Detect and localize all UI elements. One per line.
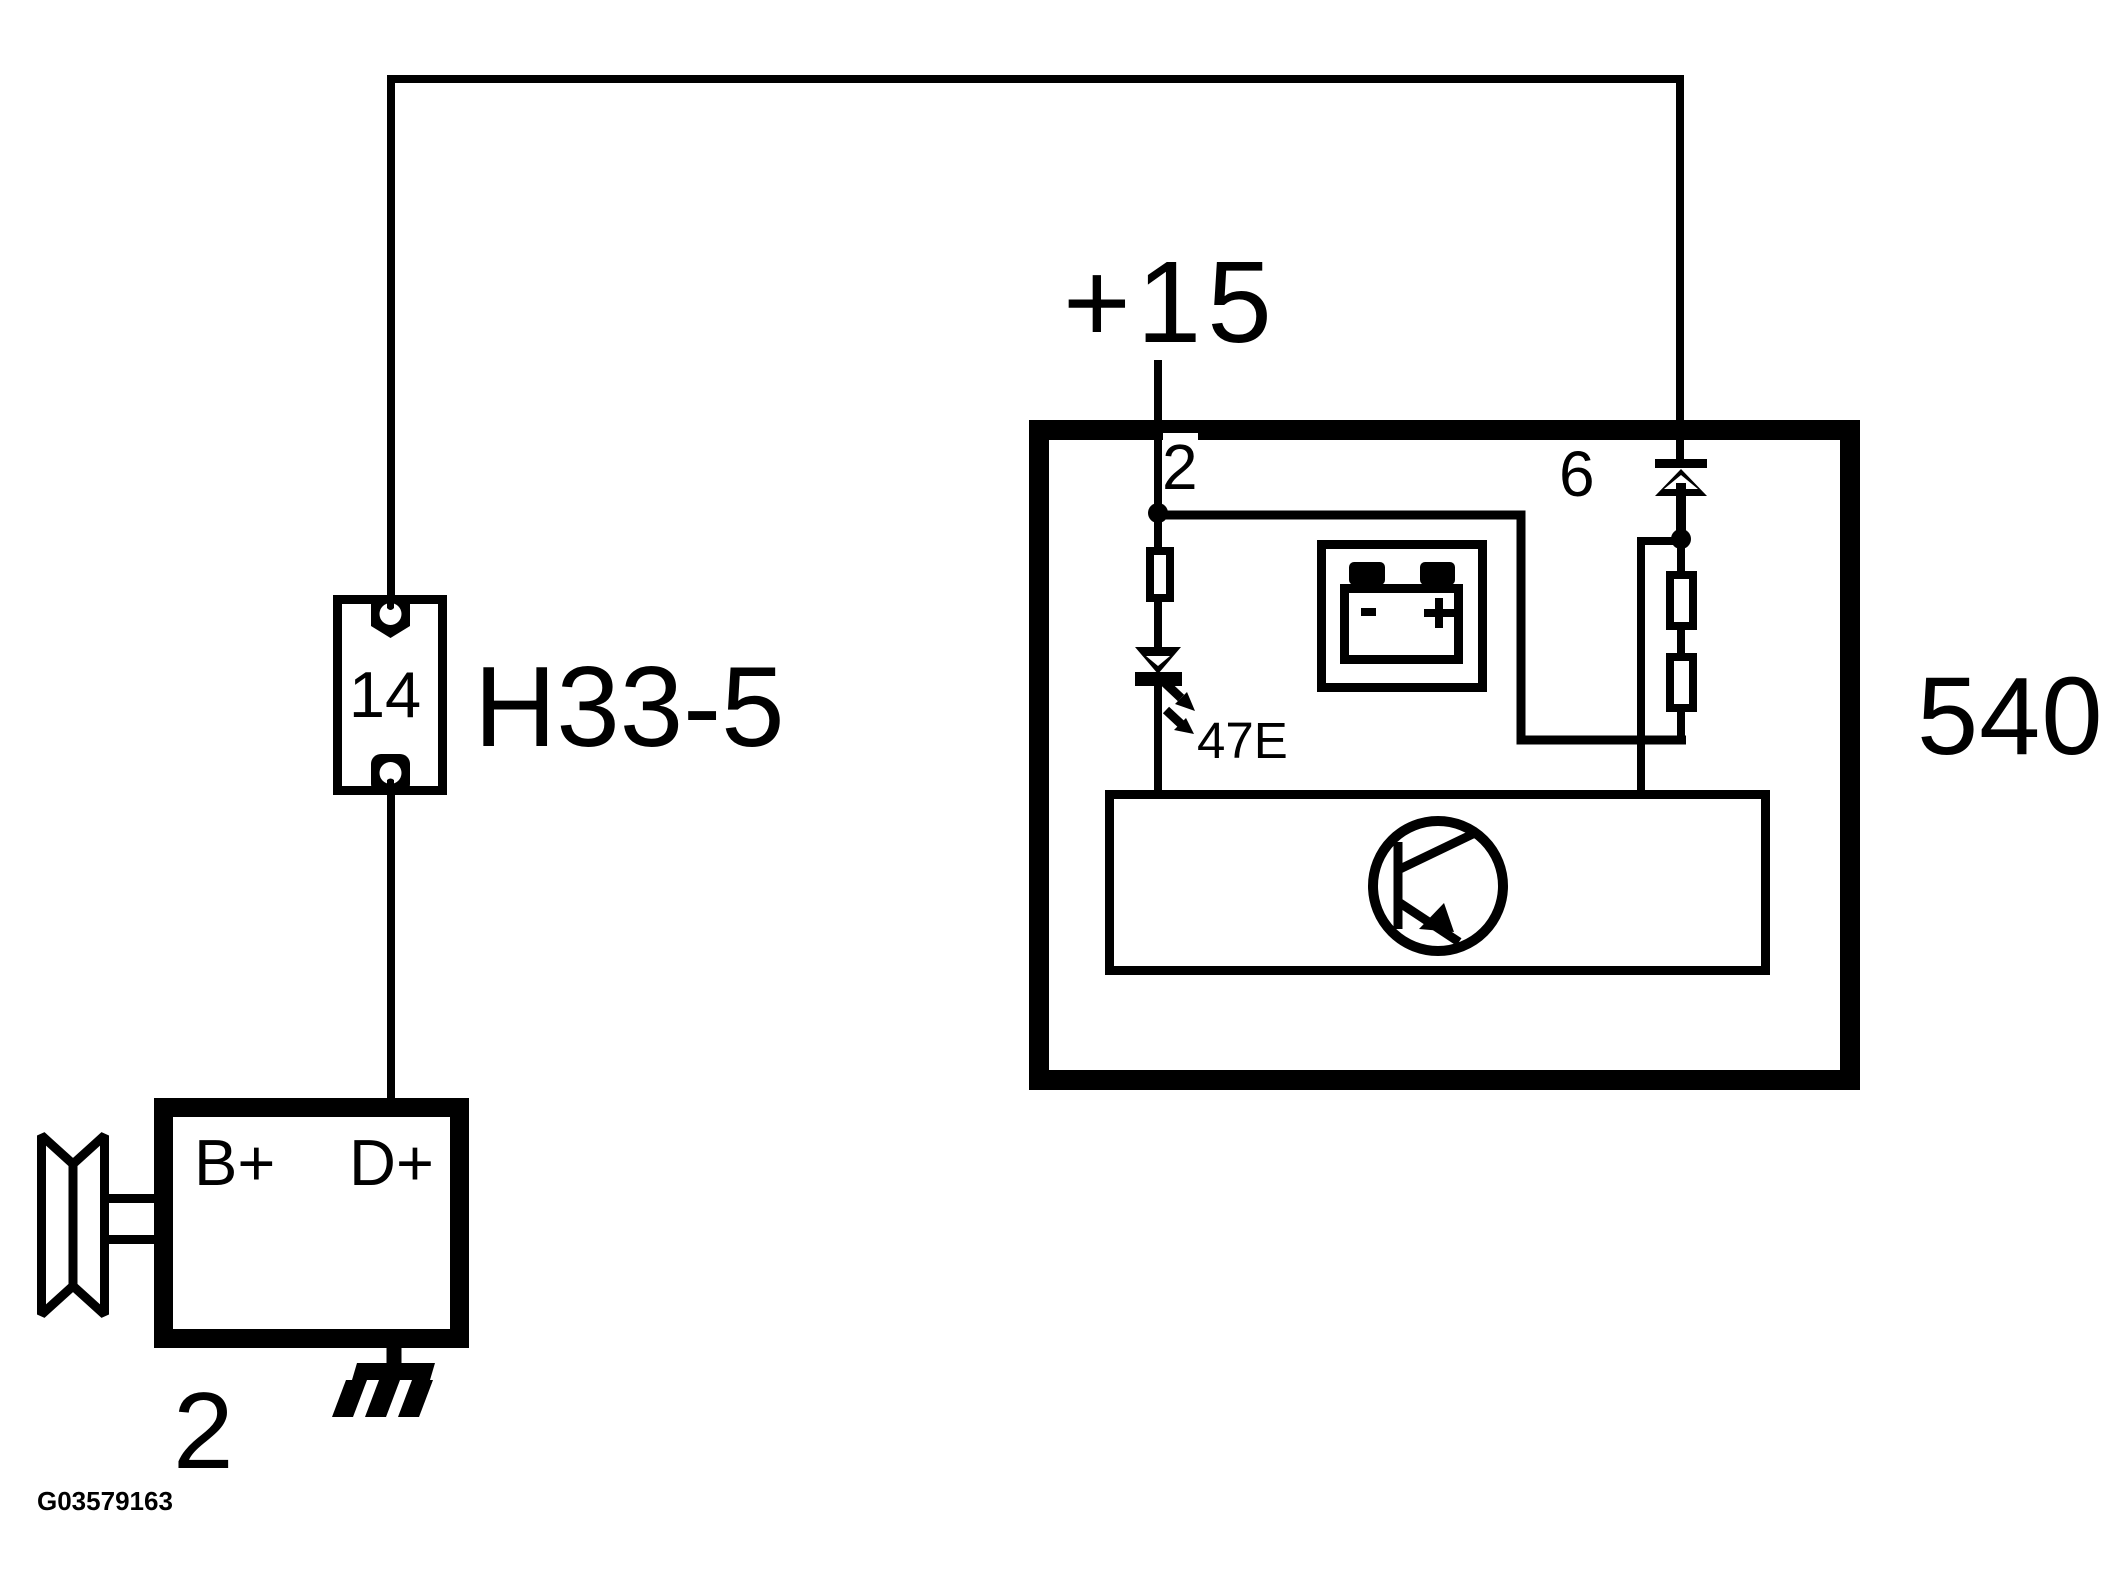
svg-text:2: 2 [1162, 431, 1198, 503]
svg-text:G03579163: G03579163 [37, 1486, 173, 1516]
alternator box [164, 1108, 460, 1339]
svg-text:47E: 47E [1197, 712, 1288, 769]
pulley shaft stubs [105, 1194, 154, 1203]
control module 540 box [1039, 430, 1850, 1080]
resistor R2 [1670, 575, 1693, 626]
wire junction to left branch down to amplifier [1641, 541, 1681, 794]
node junction pin2 [1148, 503, 1168, 523]
resistor R3 [1670, 657, 1693, 708]
battery minus [1361, 608, 1376, 616]
wire top loop from alternator D+ up, across, down to control module [391, 79, 1680, 599]
resistor R1 (pin2 branch) [1150, 551, 1170, 598]
wire resistor chain to bottom bend [1677, 712, 1685, 740]
connector pin socket top [371, 600, 410, 638]
wire resistor R1 to LED [1154, 596, 1162, 649]
wire box edge to diode [1676, 438, 1684, 461]
svg-text:540: 540 [1917, 655, 2104, 778]
battery body [1345, 589, 1459, 660]
svg-text:14: 14 [349, 658, 421, 731]
transistor Q1 [1373, 821, 1503, 951]
wire +15 into module pin 2 down to junction and resistor R1 [1154, 360, 1162, 555]
svg-text:+15: +15 [1063, 237, 1278, 367]
wire junction to right bend [1158, 515, 1686, 740]
diode D1 triangle [1655, 469, 1707, 496]
svg-text:6: 6 [1559, 438, 1595, 510]
diode D1 cathode bar [1655, 459, 1707, 468]
node junction right [1671, 529, 1691, 549]
battery terminal left [1349, 562, 1385, 585]
amplifier sub box [1110, 795, 1766, 971]
wire LED to amplifier box [1154, 684, 1162, 794]
svg-text:2: 2 [173, 1370, 234, 1492]
LED diode triangle [1135, 647, 1181, 674]
ground stub wire [387, 1344, 402, 1364]
wire junction into resistor chain [1677, 539, 1685, 575]
LED cathode bar [1135, 672, 1182, 686]
LED arrow 1 [1164, 682, 1195, 711]
svg-text:H33-5: H33-5 [474, 644, 785, 771]
wire between resistors [1677, 630, 1685, 657]
wire connector H33-5 to alternator [387, 791, 395, 1102]
connector H33-5 pin 14 body [338, 600, 443, 791]
wire diode to junction [1676, 483, 1686, 539]
battery outer box [1322, 545, 1483, 688]
white notch of pin 2 label [1163, 433, 1198, 490]
LED arrow 2 [1166, 710, 1194, 734]
battery plus [1424, 598, 1454, 628]
svg-text:B+: B+ [194, 1126, 275, 1199]
battery terminal right [1420, 562, 1455, 585]
ground symbol [332, 1363, 435, 1417]
connector pin socket bottom [371, 754, 410, 794]
svg-text:D+: D+ [349, 1126, 434, 1199]
pulley symbol [42, 1136, 105, 1315]
